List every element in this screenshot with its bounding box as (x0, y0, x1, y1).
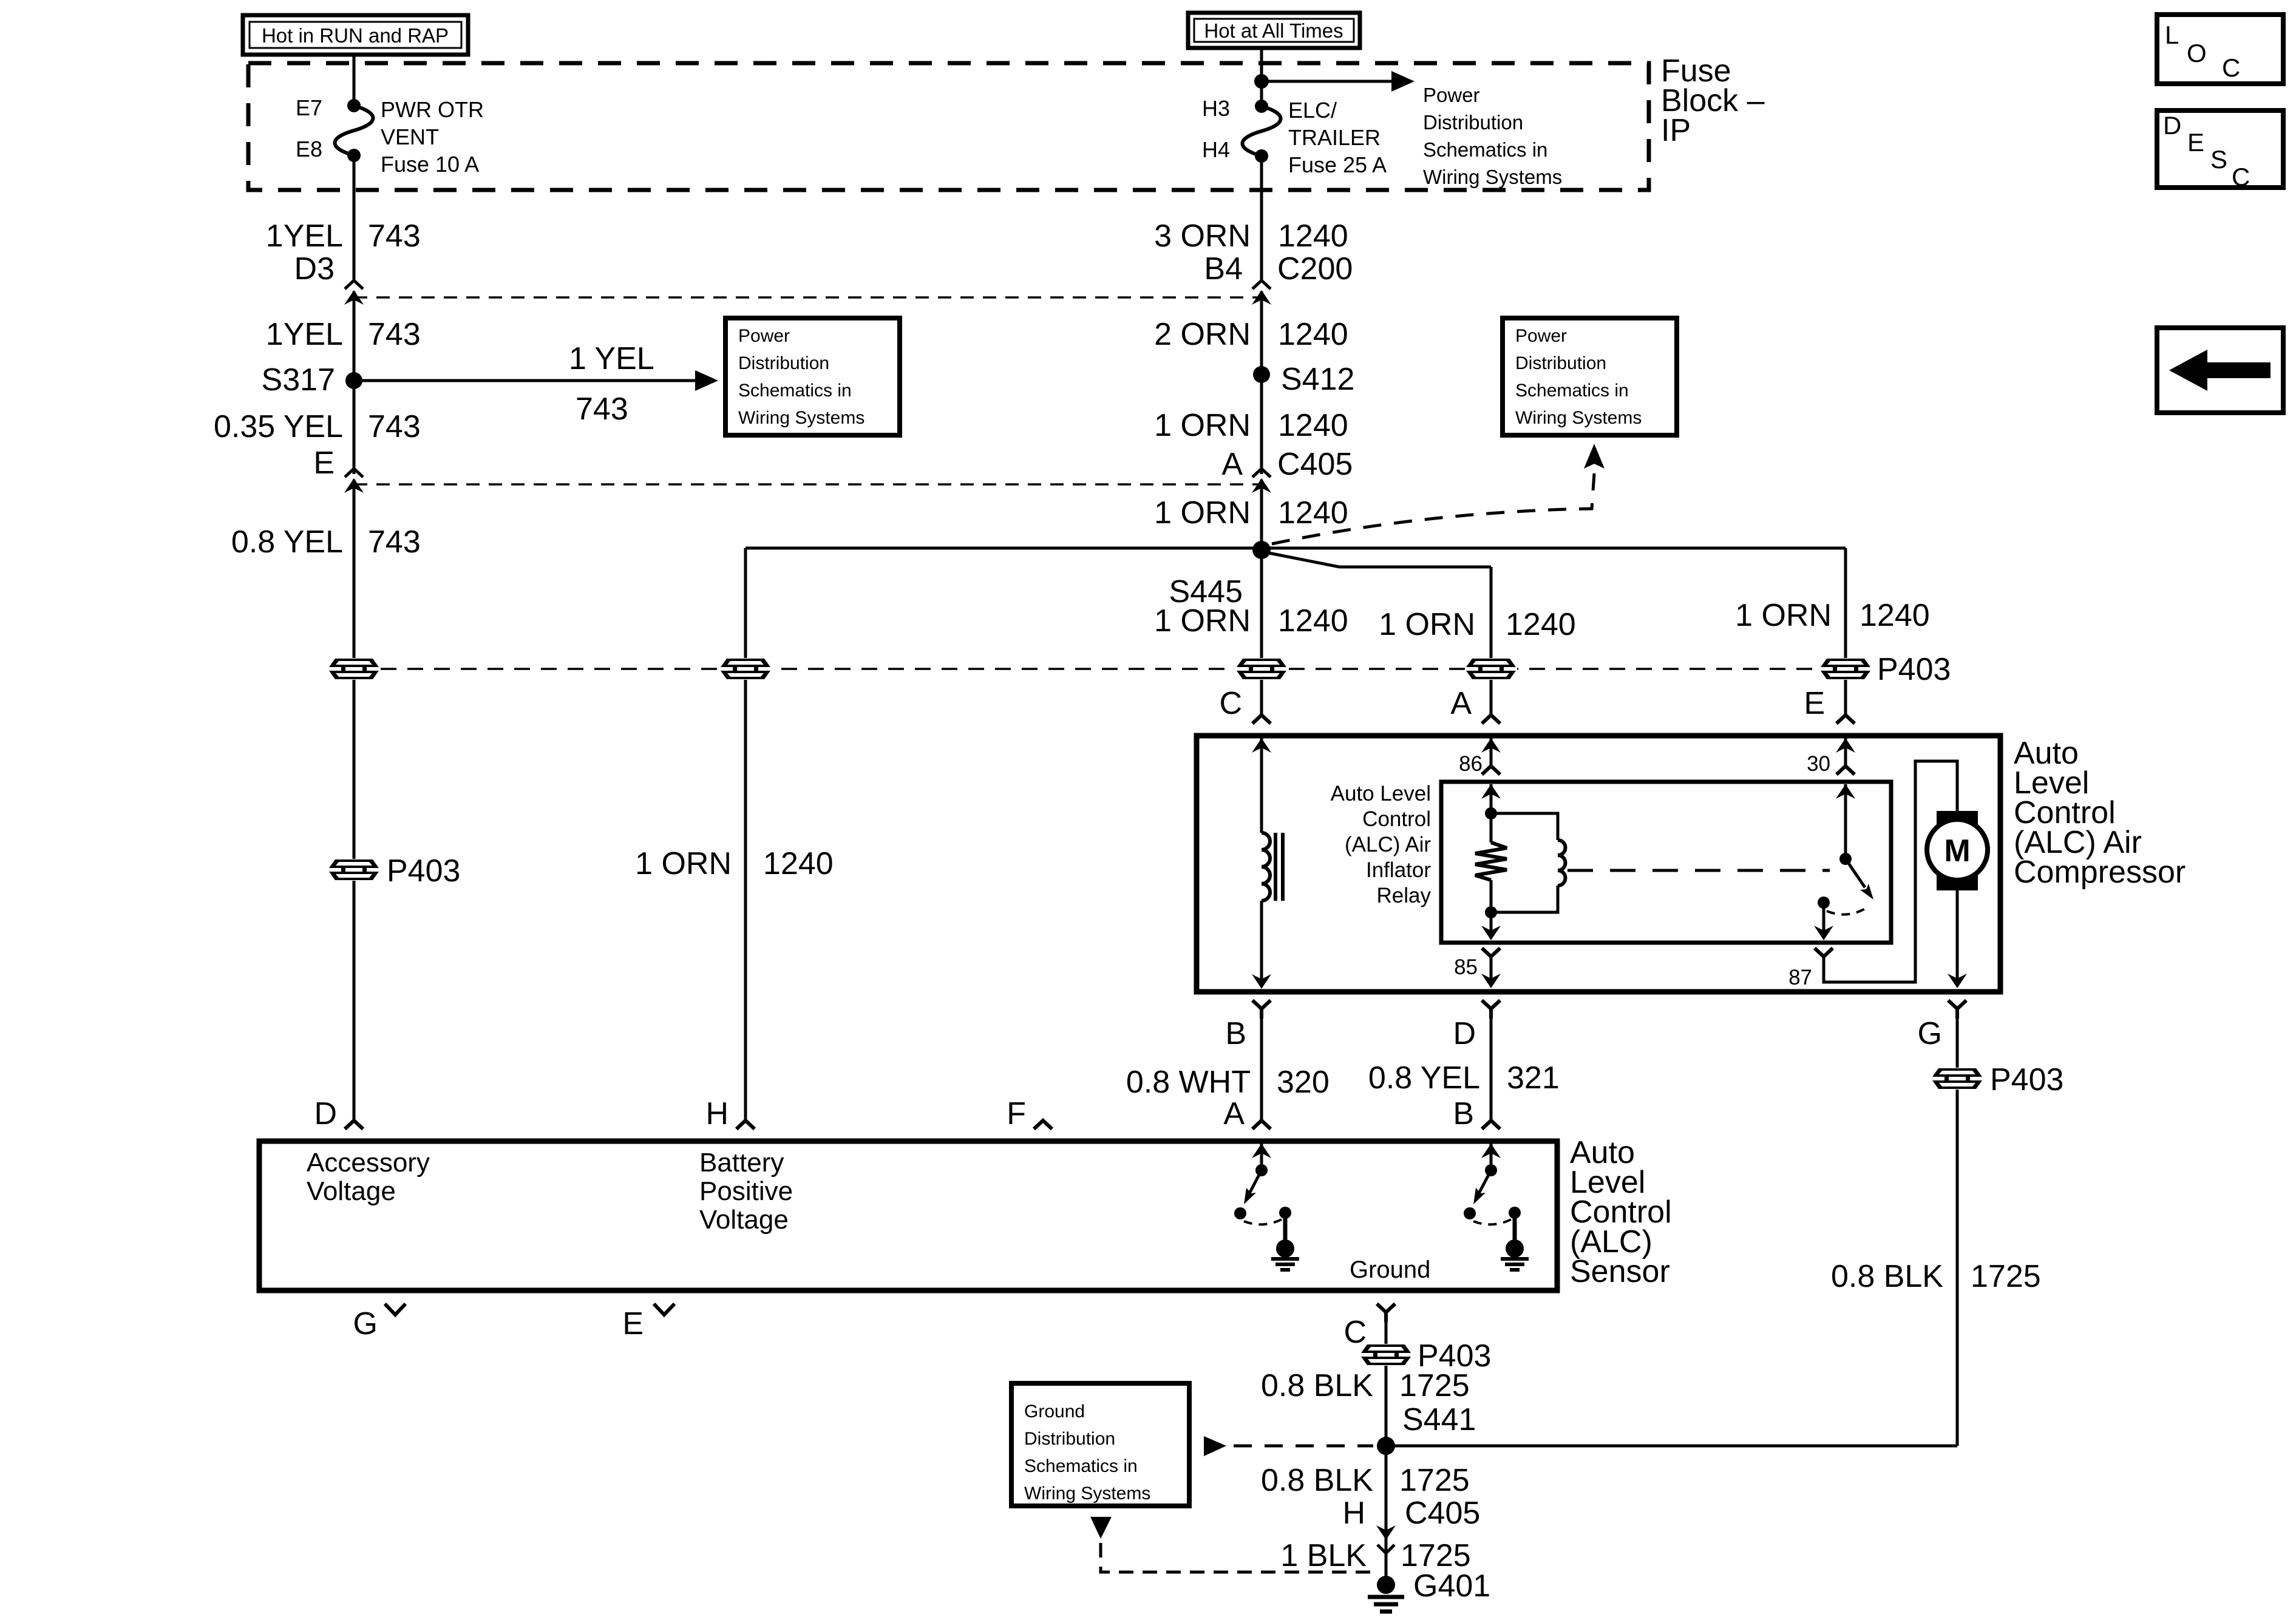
pin D exit chevron below compressor (1482, 1000, 1500, 1019)
wire H orange 1240 down (744, 548, 747, 1120)
wire from S441 to compressor ground branch (1386, 1445, 1957, 1448)
svg-text:Power: Power (738, 326, 790, 346)
ALC sensor box (259, 1141, 1557, 1290)
sensor switch A ground contact (1279, 1207, 1291, 1219)
svg-text:H4: H4 (1202, 137, 1230, 162)
break crossing D3 (344, 280, 364, 305)
svg-text:G: G (1918, 1016, 1942, 1051)
svg-text:0.8 BLK: 0.8 BLK (1831, 1259, 1943, 1294)
svg-text:G: G (353, 1306, 378, 1341)
svg-text:VENT: VENT (381, 124, 439, 149)
svg-text:M: M (1944, 833, 1970, 869)
pin 85 wire inside relay with down arrow (1490, 912, 1493, 937)
sensor switch A contact (1234, 1207, 1246, 1219)
wire 0.8 YEL 321 from pin D to sensor B (1490, 1019, 1493, 1120)
svg-text:S412: S412 (1281, 362, 1354, 397)
relay node top junction (1485, 807, 1497, 819)
svg-text:L: L (2165, 21, 2179, 49)
sensor switch B ground contact (1509, 1207, 1521, 1219)
wire yellow 743 segment below fuse E8 (353, 155, 356, 280)
sensor switch A up arrow (1260, 1144, 1263, 1170)
arrow from S317 to Power Distribution box (354, 370, 718, 391)
wire from pin G down right side (1956, 1019, 1959, 1446)
connector P403 on wire C (1235, 658, 1288, 680)
svg-text:E: E (2187, 128, 2204, 157)
svg-text:743: 743 (368, 409, 421, 444)
svg-text:P403: P403 (1877, 652, 1951, 687)
svg-text:Power: Power (1423, 84, 1480, 106)
sensor pin C exit chevron (1377, 1304, 1395, 1322)
svg-text:E8: E8 (296, 137, 322, 161)
fuse block IP dashed box (248, 63, 1649, 190)
svg-text:C405: C405 (1405, 1496, 1480, 1531)
svg-text:TRAILER: TRAILER (1288, 125, 1381, 150)
sensor switch B contact (1464, 1207, 1476, 1219)
svg-text:0.8 BLK: 0.8 BLK (1261, 1368, 1373, 1403)
Power Distribution box 2 (1503, 318, 1677, 435)
connector P403 on wire A (1465, 658, 1517, 680)
svg-text:C: C (1219, 686, 1242, 721)
sensor pin H entry chevron (736, 1120, 755, 1129)
sensor switch B up arrow (1490, 1144, 1493, 1170)
pin 30 wire between boxes (1836, 738, 1855, 775)
svg-text:1 ORN: 1 ORN (1154, 408, 1251, 443)
svg-text:A: A (1221, 447, 1243, 482)
resistor R inside relay (1475, 813, 1507, 912)
svg-text:1 ORN: 1 ORN (635, 846, 732, 881)
svg-text:P403: P403 (387, 853, 460, 889)
ground G401 (1368, 1576, 1404, 1612)
section dashed separator line 2 (354, 483, 1262, 486)
sensor switch B ground bar (1513, 1216, 1517, 1241)
header box Hot at All Times (1188, 13, 1360, 48)
sensor switch B arm (1473, 1170, 1491, 1204)
pin G exit chevron below compressor (1948, 1000, 1966, 1019)
ground symbol B (1501, 1239, 1529, 1270)
wire orange 1240 segment 3 (1260, 480, 1263, 548)
wire 0.8 WHT 320 from pin B to sensor A (1260, 1019, 1263, 1120)
connector P403 on wire YEL (328, 658, 380, 680)
svg-text:Hot in RUN and RAP: Hot in RUN and RAP (262, 24, 449, 47)
svg-text:1 ORN: 1 ORN (1154, 603, 1251, 639)
svg-text:1240: 1240 (1278, 495, 1348, 531)
connector P403 on wire E (1819, 658, 1872, 680)
svg-text:E7: E7 (296, 95, 322, 120)
connector P403 on wire G (1931, 1068, 1983, 1090)
section dashed separator line (354, 296, 1262, 299)
sensor pin G stub chevron below box (385, 1304, 406, 1315)
svg-text:P403: P403 (1990, 1062, 2063, 1097)
pin 87 wire inside relay with down arrow (1822, 908, 1826, 937)
svg-text:Inflator: Inflator (1366, 858, 1431, 882)
splice S441 (1377, 1437, 1395, 1455)
svg-text:H: H (1342, 1496, 1365, 1531)
motor output wire to pin G with down arrow (1956, 890, 1959, 985)
relay node bottom junction (1485, 906, 1497, 918)
sensor switch A ground bar (1283, 1216, 1288, 1241)
svg-text:0.8 YEL: 0.8 YEL (231, 524, 343, 560)
pin 30 wire inside relay to switch pivot (1844, 784, 1847, 859)
svg-text:S441: S441 (1402, 1402, 1476, 1437)
svg-text:D: D (1453, 1016, 1476, 1051)
svg-text:Compressor: Compressor (2014, 855, 2186, 890)
sensor pin F stub chevron (1034, 1120, 1052, 1129)
sensor switch A pivot (1255, 1164, 1268, 1176)
svg-text:1240: 1240 (1278, 219, 1348, 254)
svg-text:F: F (1007, 1096, 1026, 1131)
wire E segment down (1844, 548, 1847, 715)
svg-text:S317: S317 (262, 362, 335, 398)
svg-text:B: B (1225, 1016, 1246, 1051)
sensor pin A entry chevron (1252, 1120, 1271, 1129)
svg-text:1YEL: 1YEL (266, 219, 343, 254)
svg-text:Schematics in: Schematics in (1423, 138, 1547, 161)
splice S445 (1252, 541, 1271, 559)
pin 87 chevron below inner box (1815, 948, 1833, 957)
branch wire from S445 to relay pin A column (1269, 553, 1491, 567)
svg-text:2 ORN: 2 ORN (1154, 317, 1251, 352)
svg-text:1240: 1240 (1278, 603, 1348, 639)
wire C orange segment to relay (1260, 548, 1263, 715)
sensor switch A dashed arc (1244, 1219, 1282, 1224)
svg-text:Power: Power (1515, 326, 1567, 346)
svg-text:Ground: Ground (1024, 1402, 1085, 1422)
svg-text:86: 86 (1459, 752, 1483, 776)
main feed wire left from S445 to wire H (746, 547, 1262, 550)
svg-text:Hot at All Times: Hot at All Times (1204, 19, 1343, 42)
svg-text:1725: 1725 (1399, 1368, 1470, 1403)
break crossing C200 (1252, 280, 1271, 305)
feed wire below coil with down arrow at box bottom (1260, 901, 1263, 986)
svg-text:E: E (622, 1306, 644, 1341)
connector P403 on ground wire (1360, 1344, 1412, 1366)
svg-text:Distribution: Distribution (1024, 1429, 1115, 1449)
svg-text:Auto Level: Auto Level (1331, 782, 1431, 805)
svg-text:3 ORN: 3 ORN (1154, 219, 1251, 254)
wire from Hot at All Times box to H3 (1260, 48, 1263, 106)
dashed throw arc (1827, 907, 1868, 915)
pin B exit chevron below compressor (1252, 1000, 1271, 1019)
svg-text:D: D (314, 1096, 337, 1131)
svg-text:Ground: Ground (1350, 1256, 1430, 1283)
svg-text:Distribution: Distribution (738, 353, 829, 373)
switch pivot node (1839, 853, 1852, 865)
wire A segment down (1490, 567, 1493, 715)
pin 86 wire inside relay with up arrow (1490, 784, 1493, 813)
svg-text:C200: C200 (1277, 251, 1353, 286)
svg-text:743: 743 (368, 317, 421, 352)
sensor switch A arm (1244, 1170, 1262, 1204)
svg-text:1 BLK: 1 BLK (1280, 1538, 1367, 1573)
svg-text:743: 743 (368, 524, 421, 560)
relay coil feed wire inside compressor (pin C to pin B) (1260, 738, 1263, 833)
svg-text:D: D (2163, 111, 2181, 140)
svg-text:743: 743 (368, 219, 421, 254)
svg-text:G401: G401 (1413, 1568, 1490, 1604)
connector pass-through dashed line P403 (354, 668, 1846, 670)
header box Hot in RUN and RAP (243, 15, 468, 55)
arrow from Ground Distribution box to S441 (1204, 1436, 1373, 1456)
DESC box (2157, 110, 2283, 191)
main feed wire right from S445 to wire E (1262, 547, 1846, 550)
svg-text:Voltage: Voltage (699, 1205, 789, 1235)
svg-text:1YEL: 1YEL (266, 317, 343, 352)
relay coil on feed wire (1262, 833, 1283, 901)
break crossing C405 down (1376, 1525, 1396, 1553)
sensor pin B entry chevron (1482, 1120, 1500, 1129)
svg-text:Fuse 25 A: Fuse 25 A (1288, 152, 1387, 177)
svg-text:A: A (1450, 686, 1472, 721)
svg-text:B: B (1453, 1096, 1474, 1131)
svg-text:1240: 1240 (1278, 408, 1348, 443)
svg-text:Schematics in: Schematics in (1515, 381, 1629, 401)
svg-text:320: 320 (1277, 1065, 1330, 1100)
back arrow box (2157, 328, 2283, 413)
wire yellow 743 long segment (353, 480, 356, 1120)
svg-text:D3: D3 (294, 251, 335, 286)
wire from Hot in RUN box to fuse E7 (353, 55, 356, 106)
svg-text:E: E (1804, 686, 1825, 721)
motor M (1927, 811, 1988, 890)
svg-text:30: 30 (1807, 752, 1830, 776)
svg-text:1725: 1725 (1399, 1463, 1470, 1498)
ALC air compressor outer box (1197, 736, 2000, 992)
svg-text:Accessory: Accessory (307, 1148, 430, 1178)
svg-text:0.35 YEL: 0.35 YEL (214, 409, 343, 444)
switch contact node 87 (1818, 897, 1830, 909)
pin 87 loop wire to motor (1824, 761, 1957, 982)
svg-text:C: C (2222, 53, 2240, 82)
pin 86 wire between boxes (1481, 738, 1501, 775)
dashed arrow from S445 to Power Distribution box 2 (1272, 444, 1605, 544)
relay coil parallel branch (1491, 813, 1566, 912)
LOC box (2157, 15, 2283, 84)
sensor switch B pivot (1485, 1164, 1497, 1176)
svg-text:Wiring Systems: Wiring Systems (1515, 408, 1642, 428)
ground wire from pin C (1385, 1322, 1388, 1585)
ALC air inflator relay inner box (1441, 782, 1891, 943)
dashed arrow from Ground Distribution box down to G401 (1090, 1517, 1373, 1572)
svg-text:O: O (2187, 39, 2207, 67)
break crossing C405 (1252, 469, 1271, 493)
svg-text:1240: 1240 (1860, 598, 1930, 633)
svg-text:S: S (2210, 145, 2227, 174)
svg-text:1 ORN: 1 ORN (1379, 607, 1475, 642)
ground symbol A (1271, 1239, 1299, 1270)
svg-text:1725: 1725 (1971, 1259, 2041, 1294)
wire orange 1240 segment 2 (1260, 291, 1263, 474)
svg-text:Voltage: Voltage (307, 1176, 396, 1206)
switch arm with arrowhead (1846, 859, 1873, 900)
node junction to power distribution arrow (1254, 74, 1269, 89)
fuse F2 ELC/TRAILER 25A (1243, 100, 1281, 163)
svg-text:0.8 WHT: 0.8 WHT (1126, 1065, 1251, 1100)
svg-text:0.8 YEL: 0.8 YEL (1368, 1060, 1480, 1096)
svg-text:1240: 1240 (1506, 607, 1576, 642)
svg-text:IP: IP (1661, 113, 1691, 148)
svg-text:C405: C405 (1277, 447, 1353, 482)
svg-text:Schematics in: Schematics in (1024, 1456, 1138, 1476)
Power Distribution box 1 (725, 318, 900, 435)
svg-text:Wiring Systems: Wiring Systems (1423, 166, 1562, 188)
svg-text:1240: 1240 (763, 846, 834, 881)
dashed link from relay coil to switch (1567, 869, 1830, 872)
svg-text:ELC/: ELC/ (1288, 98, 1337, 123)
svg-text:Distribution: Distribution (1515, 353, 1606, 373)
svg-text:743: 743 (576, 392, 628, 427)
svg-text:Fuse 10 A: Fuse 10 A (381, 152, 479, 177)
wire yellow 743 segment 2 (353, 291, 356, 474)
svg-text:0.8 BLK: 0.8 BLK (1261, 1463, 1373, 1498)
break crossing E (344, 469, 364, 493)
svg-text:1 YEL: 1 YEL (569, 341, 654, 376)
svg-text:87: 87 (1788, 966, 1812, 989)
pin 85 chevron and wire between boxes (1481, 948, 1501, 988)
wire orange 1240 below fuse H4 (1260, 156, 1263, 280)
svg-text:Distribution: Distribution (1423, 111, 1523, 134)
connector P403 on wire YEL mid (328, 859, 380, 881)
svg-text:Relay: Relay (1377, 884, 1432, 907)
Ground Distribution box (1011, 1383, 1189, 1506)
fuse F1 PWR OTR VENT 10A (335, 99, 373, 162)
svg-text:Wiring Systems: Wiring Systems (738, 408, 864, 428)
svg-text:Control: Control (1362, 807, 1431, 831)
svg-text:1 ORN: 1 ORN (1154, 495, 1251, 531)
svg-text:H3: H3 (1202, 96, 1230, 121)
svg-text:(ALC) Air: (ALC) Air (1345, 833, 1431, 856)
svg-text:B4: B4 (1204, 251, 1243, 286)
svg-text:A: A (1223, 1096, 1245, 1131)
sensor switch B dashed arc (1473, 1219, 1511, 1224)
svg-text:1 ORN: 1 ORN (1735, 598, 1832, 633)
svg-text:Wiring Systems: Wiring Systems (1024, 1483, 1150, 1503)
splice S412 (1253, 366, 1270, 383)
svg-text:H: H (705, 1096, 729, 1131)
svg-text:1240: 1240 (1278, 317, 1348, 352)
svg-text:E: E (313, 446, 335, 481)
splice S317 (345, 372, 362, 389)
svg-text:Schematics in: Schematics in (738, 381, 852, 401)
svg-text:PWR OTR: PWR OTR (381, 97, 484, 122)
svg-text:C: C (2232, 163, 2250, 191)
svg-text:Positive: Positive (699, 1176, 793, 1206)
svg-text:321: 321 (1507, 1060, 1560, 1096)
svg-text:85: 85 (1454, 955, 1478, 979)
sensor pin D entry chevron (345, 1120, 363, 1129)
connector P403 on wire H (719, 658, 772, 680)
svg-text:Battery: Battery (699, 1148, 784, 1178)
sensor pin E stub chevron below box (654, 1304, 674, 1315)
svg-text:Sensor: Sensor (1570, 1254, 1670, 1289)
arrow to Power Distribution Schematics (top right) (1262, 71, 1415, 92)
